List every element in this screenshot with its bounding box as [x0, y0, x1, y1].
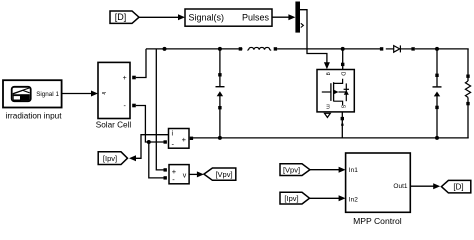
PWM generator block: [185, 9, 272, 26]
load resistor branch R: [465, 49, 470, 138]
output capacitor branch C2: [433, 49, 442, 138]
from tag [Ipv] bottom: [280, 192, 310, 204]
wire irradiation to solar cell: [62, 93, 93, 95]
svg-text:[D]: [D]: [115, 12, 127, 22]
current measurement block: [169, 129, 190, 149]
node dot: [147, 140, 151, 144]
voltage meas + port square: [164, 168, 167, 171]
wire solar- node to voltage meas minus: [149, 142, 164, 178]
svg-text:In2: In2: [349, 196, 358, 203]
svg-text:Ir: Ir: [100, 92, 106, 96]
source port square: [341, 117, 344, 120]
svg-text:v: v: [183, 173, 187, 180]
svg-text:In1: In1: [349, 167, 358, 174]
svg-text:[Vpv]: [Vpv]: [215, 170, 232, 179]
arrowhead into solar cell: [91, 91, 98, 97]
wire PWM to demux: [272, 16, 290, 18]
voltage meas - port square: [164, 176, 167, 179]
unconnected demux output port: [301, 23, 304, 27]
arrowhead into demux: [288, 14, 295, 20]
wire PV+ to top rail: [136, 49, 146, 78]
solar cell block: [98, 62, 130, 118]
solar - port square: [132, 104, 136, 108]
MPP control block: [346, 153, 411, 212]
node dot drain: [341, 47, 345, 51]
wire solar- to current meas: [136, 106, 164, 143]
demux: [295, 2, 300, 33]
svg-text:[Vpv]: [Vpv]: [283, 166, 300, 175]
svg-text:MPP Control: MPP Control: [353, 216, 402, 226]
wire Out1 to [D] goto: [410, 185, 434, 187]
arrowhead into PWM: [178, 14, 185, 20]
svg-text:D: D: [339, 72, 345, 76]
wire Ipv to In2: [310, 197, 341, 199]
svg-text:+: +: [123, 75, 127, 82]
wire rail to voltage meas plus: [156, 49, 163, 170]
svg-text:Pulses: Pulses: [242, 13, 270, 23]
svg-text:+: +: [182, 135, 187, 144]
arrowhead into In2: [339, 195, 346, 201]
MOSFET block: [317, 70, 354, 112]
from tag [Vpv] bottom: [280, 164, 310, 176]
goto tag [Ipv]: [98, 152, 127, 165]
svg-text:[Ipv]: [Ipv]: [103, 154, 117, 163]
svg-text:Out1: Out1: [393, 183, 407, 190]
small square on source wire: [341, 124, 343, 126]
drain wire: [342, 49, 344, 70]
node dot input cap top: [218, 47, 222, 51]
voltage measurement block: [169, 165, 189, 184]
svg-text:g: g: [325, 72, 331, 75]
m port triangle: [325, 113, 331, 117]
arrowhead into In1: [339, 167, 346, 173]
wire v out to Vpv goto: [189, 173, 198, 175]
i output wire to Ipv goto: [136, 135, 169, 159]
node dot input cap bottom: [218, 136, 222, 140]
top rail segment A: [146, 48, 243, 50]
node dot on rail: [163, 47, 167, 51]
svg-text:Signal 1: Signal 1: [36, 91, 59, 98]
node dot output cap top: [435, 47, 439, 51]
top rail segment C: [415, 48, 469, 50]
input capacitor branch C1: [216, 49, 225, 138]
arrowhead into [Vpv]: [197, 171, 204, 177]
goto tag [Vpv]: [204, 168, 236, 180]
svg-text:m: m: [324, 104, 330, 109]
goto tag [D] bottom right: [441, 180, 470, 193]
diode D: [380, 45, 415, 52]
drain port square: [341, 63, 344, 66]
svg-text:[Ipv]: [Ipv]: [284, 194, 298, 203]
svg-text:Signal(s): Signal(s): [189, 13, 225, 23]
current meas out square: [190, 137, 193, 140]
wire Vpv to In1: [310, 169, 340, 171]
arrowhead into gate: [324, 62, 330, 69]
bottom rail: [192, 137, 469, 139]
solar + port square: [132, 76, 136, 80]
from tag [D]: [110, 11, 139, 23]
wire demux to MOSFET gate: [300, 10, 327, 63]
current meas - port square: [164, 140, 167, 143]
wire [D] to PWM: [139, 16, 179, 18]
svg-text:Solar Cell: Solar Cell: [96, 121, 132, 130]
node dot output cap bottom: [435, 136, 439, 140]
signal builder block (irradiation input): [3, 80, 62, 107]
inductor L: [239, 47, 277, 50]
svg-text:[D]: [D]: [453, 183, 463, 192]
svg-text:irradiation input: irradiation input: [6, 112, 63, 121]
source wire: [341, 112, 343, 138]
top rail segment B: [277, 48, 380, 50]
arrowhead into [Ipv]: [129, 155, 136, 161]
arrowhead into [D]: [433, 183, 440, 189]
